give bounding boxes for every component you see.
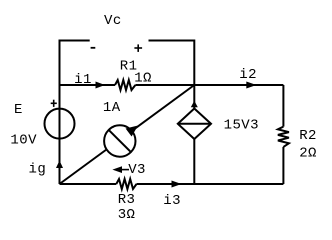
arrow i1 [96, 82, 106, 89]
arrow i2 [246, 82, 256, 89]
label plus [134, 44, 142, 52]
svg-text:2Ω: 2Ω [299, 146, 317, 162]
svg-text:15V3: 15V3 [224, 117, 259, 133]
svg-text:R2: R2 [299, 128, 317, 144]
wire right vertical bottom [282, 147, 284, 184]
wire right vertical top [282, 85, 284, 127]
dependent source U1 bar [178, 123, 211, 125]
svg-text:3Ω: 3Ω [118, 207, 136, 223]
dependent source U1 diamond [178, 109, 211, 140]
svg-text:ig: ig [29, 161, 47, 177]
wire bottom right segment [137, 183, 284, 185]
E plus sign [51, 100, 57, 107]
svg-text:i2: i2 [239, 67, 257, 83]
current source 1A arrowhead [126, 126, 138, 137]
resistor R3 [116, 179, 136, 189]
label minus [91, 47, 96, 49]
current source 1A bar [109, 130, 131, 152]
wire left vertical [59, 85, 61, 184]
wire dependent source bottom [193, 139, 195, 184]
wire top bracket right (Vc plus side) [149, 41, 195, 86]
resistor R1 [115, 80, 135, 90]
wire dependent source top [193, 85, 195, 109]
wire top main right segment [135, 84, 283, 86]
voltage source E circle [45, 109, 75, 139]
arrow V3 shaft [120, 169, 129, 171]
wire bottom left segment [60, 183, 117, 185]
svg-text:V3: V3 [128, 162, 146, 178]
svg-text:i3: i3 [163, 193, 181, 209]
dependent source arrowhead [191, 101, 198, 108]
svg-text:Vc: Vc [104, 13, 122, 29]
current source 1A circle [104, 125, 135, 156]
svg-text:R3: R3 [118, 192, 136, 208]
svg-text:1Ω: 1Ω [134, 71, 152, 87]
wire top bracket left (Vc minus side) [60, 41, 90, 86]
arrow ig [56, 161, 63, 169]
svg-text:1A: 1A [103, 100, 121, 116]
arrow i3 [172, 181, 182, 188]
svg-text:E: E [14, 102, 23, 118]
svg-text:i1: i1 [74, 72, 92, 88]
arrow V3 head [112, 166, 122, 173]
svg-text:10V: 10V [10, 133, 37, 149]
wire top main left segment [60, 84, 116, 86]
wire diagonal [60, 85, 195, 184]
resistor R2 [278, 127, 289, 147]
